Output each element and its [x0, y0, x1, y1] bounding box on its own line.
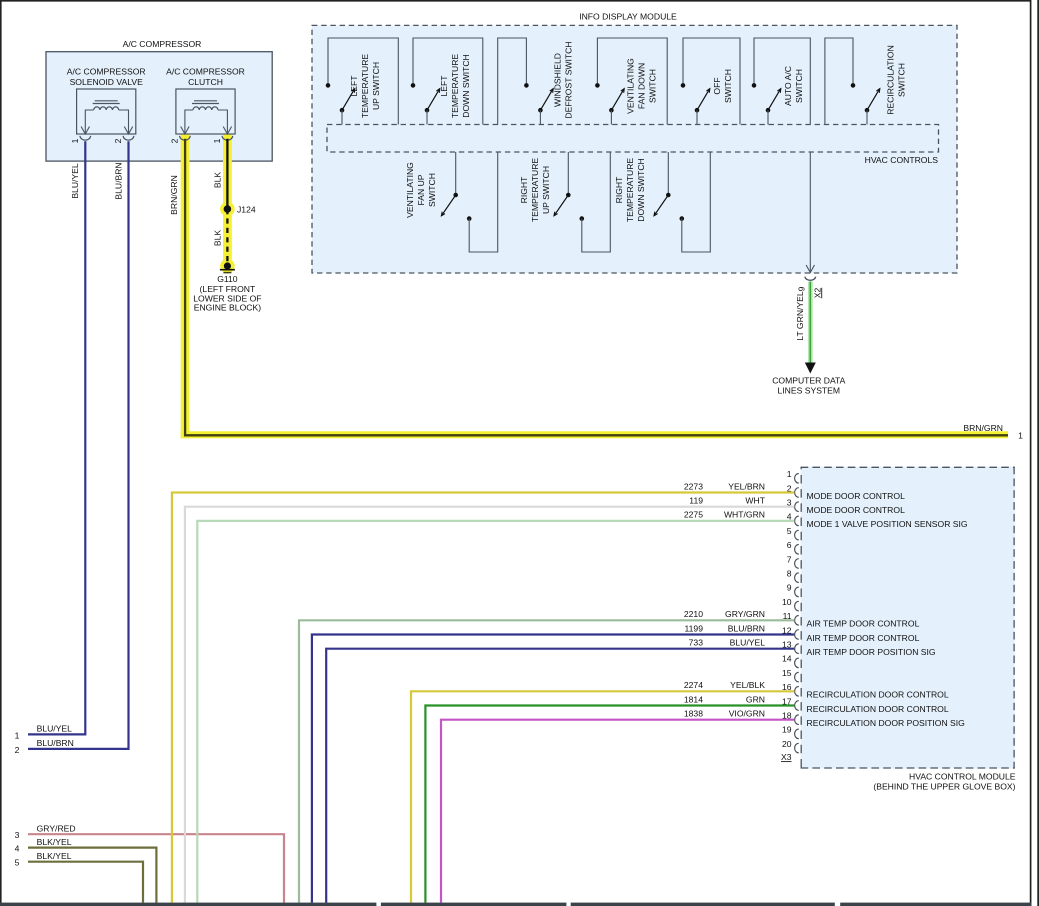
svg-text:WHT/GRN: WHT/GRN: [724, 510, 765, 520]
wire BLU/BRN 1199 to module pin 12: [312, 635, 794, 903]
svg-text:5: 5: [787, 526, 792, 536]
hvac controls inner band: [327, 125, 939, 153]
svg-text:14: 14: [782, 654, 792, 664]
svg-text:VENTILATING: VENTILATING: [405, 162, 415, 218]
svg-text:TEMPERATURE: TEMPERATURE: [625, 158, 635, 223]
svg-text:1199: 1199: [685, 623, 704, 633]
wire BLK solid segment: [226, 139, 228, 209]
svg-text:BRN/GRN: BRN/GRN: [169, 175, 179, 215]
svg-text:AIR TEMP DOOR CONTROL: AIR TEMP DOOR CONTROL: [807, 619, 920, 629]
svg-text:VIO/GRN: VIO/GRN: [729, 709, 765, 719]
wire LT GRN/YEL band: [808, 282, 813, 364]
svg-text:2: 2: [113, 138, 123, 143]
svg-text:VENTILATING: VENTILATING: [626, 58, 636, 114]
svg-text:DEFROST SWITCH: DEFROST SWITCH: [563, 41, 573, 118]
wire GRN 1814 to module pin 17: [425, 706, 794, 903]
svg-text:CLUTCH: CLUTCH: [188, 77, 223, 87]
svg-text:4: 4: [15, 844, 20, 854]
svg-text:9: 9: [787, 583, 792, 593]
svg-text:AIR TEMP DOOR CONTROL: AIR TEMP DOOR CONTROL: [807, 633, 920, 643]
svg-text:RIGHT: RIGHT: [519, 176, 529, 203]
svg-text:BLU/BRN: BLU/BRN: [37, 738, 74, 748]
svg-text:OFF: OFF: [712, 77, 722, 94]
svg-text:J124: J124: [237, 204, 256, 214]
svg-text:10: 10: [782, 597, 792, 607]
svg-text:8: 8: [787, 569, 792, 579]
wire GRY/GRN 2210 to module pin 11: [299, 620, 794, 902]
ground G110 bar2: [223, 272, 231, 274]
svg-text:X2: X2: [812, 288, 822, 299]
svg-text:SWITCH: SWITCH: [427, 173, 437, 207]
svg-text:SWITCH: SWITCH: [647, 69, 657, 103]
svg-text:1: 1: [787, 469, 792, 479]
svg-text:2273: 2273: [684, 481, 703, 491]
svg-text:1: 1: [1018, 431, 1023, 441]
svg-text:GRY/RED: GRY/RED: [37, 823, 76, 833]
wire WHT/GRN 2275 to module pin 4: [197, 521, 794, 903]
svg-text:9: 9: [796, 286, 806, 291]
hvac control module border top: [801, 466, 1015, 468]
svg-text:ENGINE BLOCK): ENGINE BLOCK): [194, 303, 261, 313]
page top border: [0, 0, 1031, 2]
svg-text:LINES SYSTEM: LINES SYSTEM: [778, 385, 841, 395]
svg-text:119: 119: [689, 496, 703, 506]
svg-text:15: 15: [782, 668, 792, 678]
wire BLU/BRN from solenoid pin 2: [28, 141, 129, 749]
wire LT GRN/YEL core: [809, 282, 811, 364]
wire BLK/YEL from pin 5: [28, 862, 143, 903]
svg-text:1: 1: [212, 138, 222, 143]
svg-text:LEFT: LEFT: [439, 75, 449, 97]
svg-text:YEL/BRN: YEL/BRN: [728, 481, 765, 491]
svg-text:GRN: GRN: [746, 694, 765, 704]
svg-text:WHT: WHT: [745, 496, 765, 506]
wire BLK highlight band: [223, 134, 232, 270]
svg-text:7: 7: [787, 554, 792, 564]
svg-text:19: 19: [782, 725, 792, 735]
svg-text:BRN/GRN: BRN/GRN: [963, 423, 1003, 433]
svg-text:INFO DISPLAY MODULE: INFO DISPLAY MODULE: [579, 11, 677, 21]
svg-text:UP SWITCH: UP SWITCH: [371, 62, 381, 110]
svg-text:(BEHIND THE UPPER GLOVE BOX): (BEHIND THE UPPER GLOVE BOX): [873, 781, 1015, 791]
page bottom border: [0, 903, 376, 906]
svg-text:GRY/GRN: GRY/GRN: [725, 609, 765, 619]
wire BLK dashed segment: [226, 209, 228, 266]
ventilating fan up switch S8: [405, 152, 497, 252]
svg-text:RECIRCULATION DOOR POSITION SI: RECIRCULATION DOOR POSITION SIG: [807, 718, 966, 728]
svg-text:BLU/BRN: BLU/BRN: [113, 162, 123, 199]
junction J124: [224, 205, 232, 213]
page right border inner: [1030, 0, 1032, 906]
off switch S5: [681, 38, 740, 125]
left temperature down switch S2: [411, 38, 483, 125]
svg-text:2210: 2210: [684, 609, 703, 619]
svg-text:SOLENOID VALVE: SOLENOID VALVE: [70, 77, 143, 87]
svg-text:20: 20: [782, 739, 792, 749]
ground G110 bar1: [220, 269, 235, 271]
svg-text:FAN UP: FAN UP: [416, 174, 426, 205]
svg-text:FAN DOWN: FAN DOWN: [637, 63, 647, 109]
svg-text:MODE DOOR CONTROL: MODE DOOR CONTROL: [807, 505, 906, 515]
page right border outer: [1037, 0, 1039, 906]
svg-text:TEMPERATURE: TEMPERATURE: [530, 158, 540, 223]
wire BRN/GRN highlight band horizontal: [181, 431, 1008, 438]
svg-text:WINDSHIELD: WINDSHIELD: [553, 53, 563, 107]
hvac control module border left: [800, 467, 802, 769]
svg-text:TEMPERATURE: TEMPERATURE: [450, 54, 460, 119]
wire YEL/BLK 2274 to module pin 16: [411, 691, 794, 902]
right temperature up switch S9: [519, 152, 610, 252]
hvac control module border right: [1013, 467, 1015, 769]
wire WHT 119 to module pin 3: [185, 507, 794, 903]
svg-text:RECIRCULATION: RECIRCULATION: [886, 45, 896, 115]
svg-text:X3: X3: [781, 752, 792, 762]
wire BLU/YEL 733 to module pin 13: [326, 649, 794, 903]
wire YEL/BRN 2273 to module pin 2: [172, 493, 794, 903]
svg-text:A/C COMPRESSOR: A/C COMPRESSOR: [67, 67, 146, 77]
svg-text:BLK/YEL: BLK/YEL: [37, 837, 72, 847]
svg-text:BLK: BLK: [212, 172, 222, 189]
svg-text:BLU/YEL: BLU/YEL: [37, 724, 73, 734]
svg-text:HVAC CONTROL MODULE: HVAC CONTROL MODULE: [909, 771, 1016, 781]
svg-text:1838: 1838: [684, 709, 703, 719]
svg-text:UP SWITCH: UP SWITCH: [541, 166, 551, 214]
auto a/c switch S6: [752, 38, 811, 125]
svg-text:A/C COMPRESSOR: A/C COMPRESSOR: [123, 39, 202, 49]
svg-text:2: 2: [15, 745, 20, 755]
svg-text:1814: 1814: [684, 694, 703, 704]
svg-text:6: 6: [787, 540, 792, 550]
connector X2 cup: [805, 277, 816, 281]
wire VIO/GRN 1838 to module pin 18: [441, 720, 794, 903]
ventilating fan down switch S4: [595, 38, 667, 125]
wire GRY/RED from pin 3: [28, 834, 284, 902]
arrow at module edge: [806, 265, 814, 273]
recirculation switch S7: [825, 38, 907, 125]
svg-text:DOWN SWITCH: DOWN SWITCH: [461, 54, 471, 118]
svg-text:RECIRCULATION DOOR CONTROL: RECIRCULATION DOOR CONTROL: [807, 690, 949, 700]
svg-text:SWITCH: SWITCH: [896, 63, 906, 97]
svg-text:A/C COMPRESSOR: A/C COMPRESSOR: [166, 67, 245, 77]
A/C compressor outer box: [46, 52, 272, 161]
svg-text:AIR TEMP DOOR POSITION SIG: AIR TEMP DOOR POSITION SIG: [807, 647, 936, 657]
wire from HVAC band to X2: [809, 152, 811, 272]
info display module box: [312, 25, 957, 273]
svg-text:COMPUTER DATA: COMPUTER DATA: [772, 375, 845, 385]
svg-text:733: 733: [689, 638, 704, 648]
svg-text:1: 1: [15, 730, 20, 740]
arrow to computer data lines: [805, 363, 816, 374]
wire BRN/GRN highlight band vertical: [181, 134, 190, 439]
svg-text:SWITCH: SWITCH: [794, 69, 804, 103]
svg-text:BLK: BLK: [212, 230, 222, 247]
module pins 1-20 with arcs: [787, 469, 799, 483]
windshield defrost switch S3: [498, 38, 574, 125]
svg-text:AUTO A/C: AUTO A/C: [783, 66, 793, 106]
svg-text:TEMPERATURE: TEMPERATURE: [360, 54, 370, 119]
svg-text:HVAC CONTROLS: HVAC CONTROLS: [865, 155, 939, 165]
svg-text:LT GRN/YEL: LT GRN/YEL: [795, 291, 805, 341]
right temperature down switch S10: [614, 152, 710, 252]
left temperature up switch S1: [326, 38, 399, 125]
svg-text:5: 5: [15, 858, 20, 868]
svg-text:3: 3: [15, 830, 20, 840]
halo G110: [220, 259, 235, 274]
hvac control module box fill: [801, 467, 1015, 769]
svg-text:LEFT: LEFT: [349, 75, 359, 97]
svg-text:BLU/YEL: BLU/YEL: [70, 163, 80, 199]
wire BRN/GRN core: [185, 139, 1008, 436]
svg-text:G110: G110: [217, 274, 238, 284]
hvac control module border bottom: [801, 767, 1015, 769]
wire BLK/YEL from pin 4: [28, 848, 156, 903]
clutch coil L2 (A/C compressor clutch): [166, 67, 245, 144]
svg-text:2275: 2275: [684, 510, 703, 520]
svg-text:YEL/BLK: YEL/BLK: [730, 680, 765, 690]
svg-text:RIGHT: RIGHT: [614, 176, 624, 203]
solenoid valve L1 (A/C compressor solenoid valve): [67, 67, 146, 144]
svg-text:RECIRCULATION DOOR CONTROL: RECIRCULATION DOOR CONTROL: [807, 704, 949, 714]
svg-text:SWITCH: SWITCH: [723, 69, 733, 103]
svg-text:BLU/BRN: BLU/BRN: [728, 623, 765, 633]
halo J124: [220, 202, 235, 217]
svg-text:MODE 1 VALVE POSITION SENSOR S: MODE 1 VALVE POSITION SENSOR SIG: [807, 519, 968, 529]
page left border: [0, 0, 2, 906]
svg-text:BLU/YEL: BLU/YEL: [730, 638, 766, 648]
ground G110 dot: [224, 262, 231, 269]
wire BLU/YEL from solenoid pin 1: [28, 141, 85, 734]
svg-text:DOWN SWITCH: DOWN SWITCH: [636, 158, 646, 222]
svg-text:BLK/YEL: BLK/YEL: [37, 851, 72, 861]
svg-text:2: 2: [169, 138, 179, 143]
svg-text:MODE DOOR CONTROL: MODE DOOR CONTROL: [807, 491, 906, 501]
svg-text:1: 1: [70, 138, 80, 143]
svg-text:2274: 2274: [684, 680, 703, 690]
